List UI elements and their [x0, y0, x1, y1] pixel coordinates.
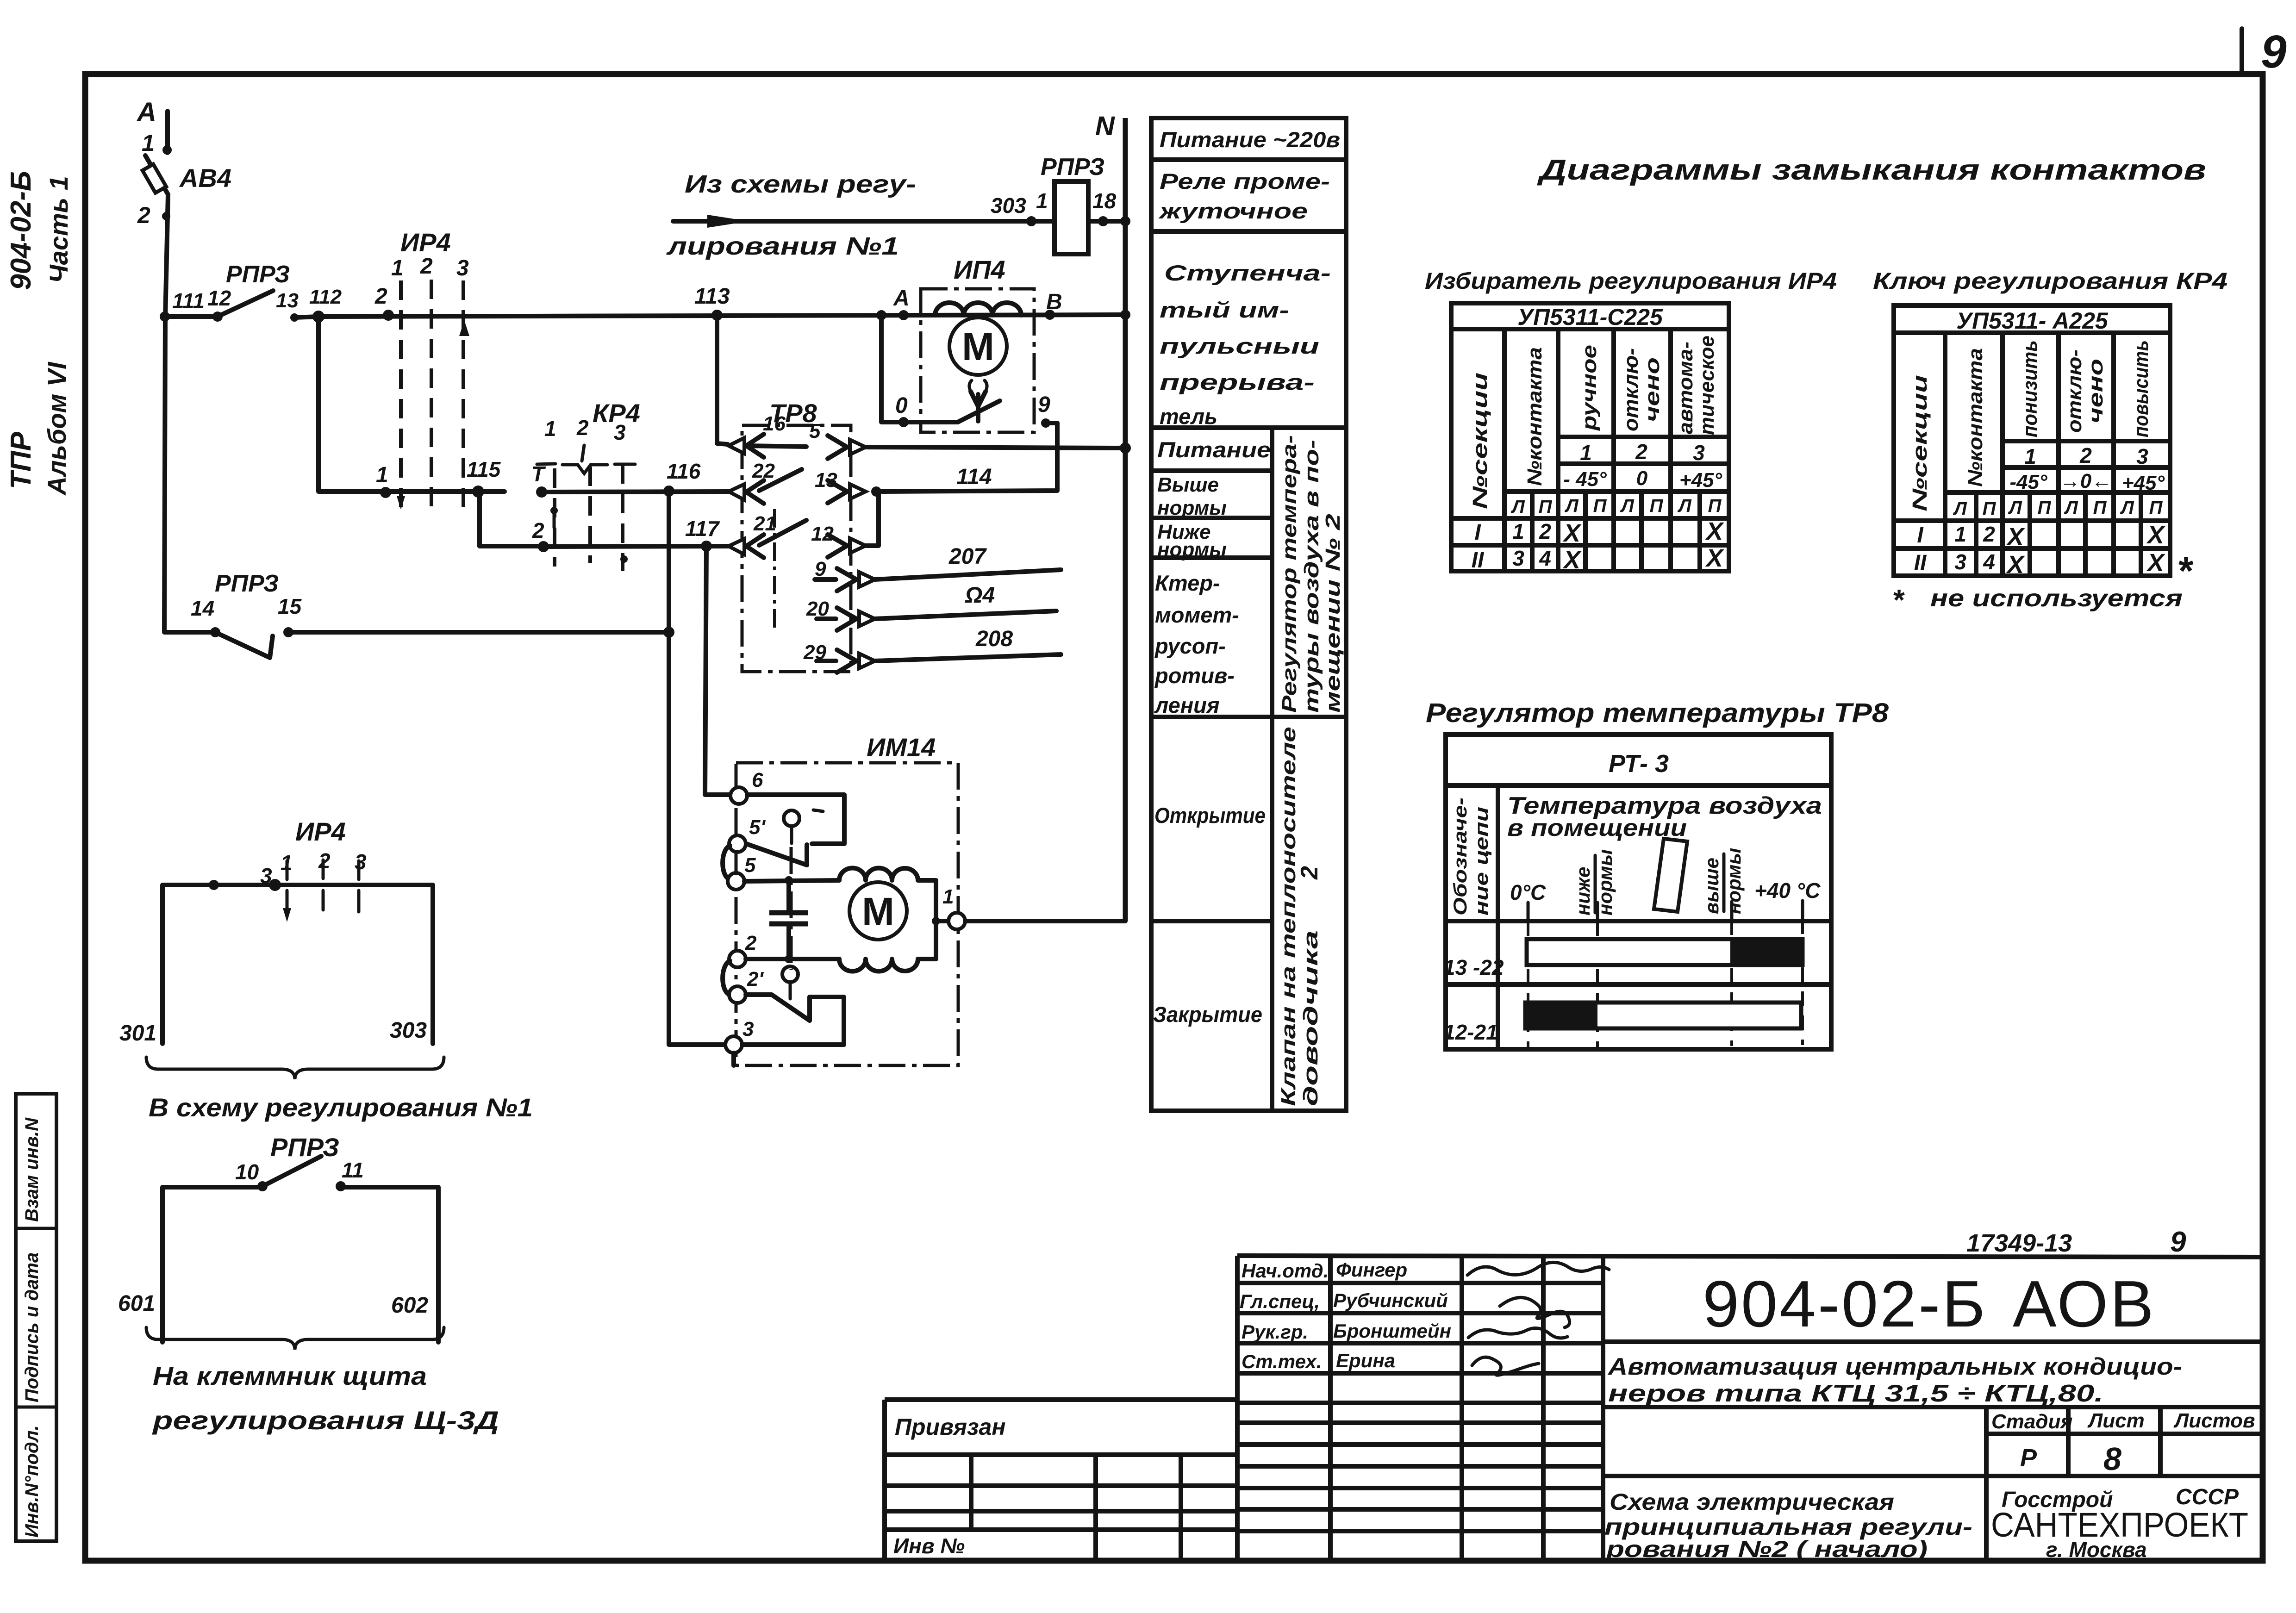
stamp column boxes (left margin): [16, 1094, 56, 1541]
svg-text:На клеммник щита: На клеммник щита: [153, 1361, 427, 1390]
IM14 jumper 5'-5: [723, 846, 730, 879]
svg-text:117: 117: [685, 517, 720, 541]
svg-text:303: 303: [991, 193, 1026, 218]
svg-text:Нач.отд.: Нач.отд.: [1242, 1260, 1329, 1282]
svg-text:Из схемы регу-: Из схемы регу-: [685, 170, 916, 198]
wire 113 down to TP8 contact 16: [717, 315, 728, 444]
svg-text:доводчика: доводчика: [1299, 930, 1322, 1106]
svg-text:не используется: не используется: [1930, 585, 2183, 612]
svg-text:УП5311- А225: УП5311- А225: [1956, 308, 2109, 334]
svg-text:3: 3: [1512, 546, 1524, 570]
svg-text:нормы: нормы: [1723, 848, 1745, 914]
svg-text:нормы: нормы: [1157, 497, 1227, 519]
svg-text:1: 1: [1512, 519, 1524, 543]
svg-text:АОВ: АОВ: [2013, 1267, 2156, 1341]
svg-text:тель: тель: [1160, 404, 1217, 429]
svg-text:303: 303: [390, 1018, 427, 1043]
svg-text:РТ- 3: РТ- 3: [1609, 750, 1669, 778]
svg-text:Рубчинский: Рубчинский: [1333, 1289, 1448, 1311]
svg-text:чено: чено: [2084, 359, 2107, 423]
svg-text:ние цепи: ние цепи: [1472, 807, 1492, 915]
legend rotated Регулятор температуры воздуха в помещении №2: [1278, 435, 1344, 713]
key diagram table UP5311-A225: [1894, 305, 2170, 579]
wire from arrow Iz skhemy regulirovaniya: [666, 170, 1054, 260]
impulse breaker IP4: [893, 255, 1062, 432]
svg-text:Диаграммы замыкания контак: Диаграммы замыкания контактов: [1536, 154, 2206, 186]
legend row Реле промежуточное: [1158, 169, 1330, 223]
subtitle Ключ регулирования КР4: [1873, 268, 2227, 294]
svg-text:115: 115: [467, 457, 501, 481]
relay contact RPR3 10-11: [235, 1133, 364, 1191]
svg-text:М: М: [962, 325, 994, 368]
svg-text:17349-13: 17349-13: [1966, 1229, 2072, 1257]
svg-text:М: М: [862, 890, 894, 933]
subtitle Избиратель регулирования ИР4: [1425, 268, 1837, 294]
wire 15 to 116 riser: [288, 630, 669, 635]
TP8 contact 29 (arrow right): [803, 641, 875, 673]
svg-text:Л: Л: [2008, 498, 2022, 518]
svg-text:3: 3: [355, 850, 367, 874]
svg-text:Л: Л: [1677, 496, 1692, 516]
svg-text:4: 4: [1539, 546, 1551, 570]
svg-text:А: А: [136, 97, 156, 127]
svg-text:207: 207: [948, 544, 987, 569]
svg-text:Обозначе-: Обозначе-: [1450, 797, 1471, 915]
svg-text:ротив-: ротив-: [1154, 663, 1235, 688]
svg-text:2: 2: [1539, 519, 1551, 543]
svg-text:Взам инв.N: Взам инв.N: [22, 1117, 42, 1222]
svg-text:повысить: повысить: [2130, 340, 2152, 437]
svg-text:мещении № 2: мещении № 2: [1322, 513, 1344, 713]
svg-text:16: 16: [763, 412, 786, 435]
wire contact5 to N bus: [866, 447, 1125, 448]
legend row Ниже нормы: [1157, 521, 1227, 561]
svg-text:Л: Л: [1510, 497, 1525, 517]
svg-text:2: 2: [576, 416, 589, 440]
title block outline: [1237, 1256, 2260, 1560]
svg-text:12: 12: [207, 286, 231, 310]
relay contact RPR3 14-15: [164, 318, 302, 658]
wire 115 down to row 2: [480, 492, 543, 546]
svg-text:УП5311-С225: УП5311-С225: [1517, 304, 1663, 330]
svg-text:2: 2: [1296, 866, 1323, 880]
svg-text:№контакта: №контакта: [1523, 347, 1546, 486]
svg-text:0: 0: [895, 393, 908, 418]
svg-text:11: 11: [342, 1158, 364, 1182]
svg-text:112: 112: [309, 286, 342, 308]
svg-text:Выше: Выше: [1157, 473, 1219, 496]
svg-text:2: 2: [745, 932, 757, 954]
svg-text:Питание ~220в: Питание ~220в: [1160, 127, 1340, 152]
TP8 contact 12 (arrow right): [811, 492, 879, 557]
svg-text:X: X: [2006, 551, 2025, 579]
organization name: [1991, 1485, 2248, 1562]
svg-text:10: 10: [235, 1160, 259, 1184]
wire main bus 112 to N: [318, 315, 1125, 317]
svg-text:1: 1: [544, 417, 556, 441]
svg-text:N: N: [1095, 111, 1115, 141]
svg-text:туры воздуха в по-: туры воздуха в по-: [1300, 440, 1323, 713]
actuator IM14: [736, 733, 958, 1065]
svg-text:в помещении: в помещении: [1507, 815, 1687, 841]
svg-text:Лист: Лист: [2087, 1409, 2145, 1432]
stage sheet table: [1603, 1407, 2260, 1560]
svg-text:Ω4: Ω4: [965, 583, 995, 608]
svg-text:1: 1: [2024, 444, 2036, 468]
IM14 upper limit switch: [746, 795, 844, 865]
thermostat table RT-3: [1446, 735, 1831, 1049]
svg-text:X: X: [2146, 549, 2165, 577]
legend row Ступенчатый импульсный прерыватель: [1160, 261, 1331, 429]
border below project title: [1603, 1405, 2260, 1409]
legend row Питание: [1157, 437, 1271, 462]
svg-text:111: 111: [172, 289, 205, 313]
svg-text:1: 1: [1954, 522, 1966, 546]
svg-text:1: 1: [376, 463, 388, 487]
N bus: [1095, 111, 1131, 921]
svg-text:1: 1: [1580, 441, 1592, 465]
svg-text:Л: Л: [1953, 498, 1967, 519]
svg-text:2: 2: [1635, 440, 1647, 464]
TP8 contact 21 (arrow left with blade): [729, 512, 806, 558]
svg-text:А: А: [893, 286, 910, 311]
wire 13-112: [294, 317, 318, 318]
svg-text:№контакта: №контакта: [1964, 348, 1987, 487]
svg-text:904-02-Б: 904-02-Б: [5, 171, 37, 290]
svg-text:3: 3: [742, 1018, 754, 1040]
node 115: [467, 457, 501, 498]
svg-text:21: 21: [753, 512, 776, 535]
breaker AB4: [137, 130, 231, 228]
svg-text:момет-: момет-: [1155, 603, 1239, 627]
legend rotated Клапан на теплоносителе доводчика 2: [1277, 727, 1323, 1106]
svg-text:3: 3: [614, 420, 626, 444]
RT-3 row 13-22 with bar: [1443, 939, 1803, 979]
svg-text:2: 2: [137, 202, 150, 228]
svg-text:2: 2: [2079, 443, 2092, 467]
legend row Закрытие: [1153, 1002, 1262, 1027]
svg-text:ИР4: ИР4: [295, 817, 346, 846]
brace to terminal strip: [146, 1327, 499, 1435]
page number tick: [2240, 29, 2244, 74]
wire T row to TP8 contact 22: [542, 492, 730, 492]
TP8 contact 5 (arrow right): [746, 420, 866, 459]
svg-text:Ерина: Ерина: [1336, 1350, 1395, 1371]
svg-text:Ключ регулирования КР4: Ключ регулирования КР4: [1873, 268, 2227, 294]
wire 112 down to row 1: [318, 317, 386, 492]
wire terminal5 to motor: [744, 876, 839, 884]
svg-text:Привязан: Привязан: [895, 1414, 1006, 1440]
title Диаграммы замыкания контактов: [1536, 154, 2206, 186]
svg-text:2: 2: [420, 254, 433, 279]
svg-text:8: 8: [2103, 1441, 2121, 1477]
margin text ТПР 904-02-6: [5, 171, 37, 489]
IM14 motor M: [839, 868, 940, 972]
svg-text:1: 1: [1036, 189, 1048, 213]
svg-text:+40 °С: +40 °С: [1754, 878, 1821, 903]
svg-text:12-21: 12-21: [1443, 1020, 1498, 1044]
IM14 jumper 2-2': [723, 961, 730, 995]
IM14 terminal 2': [729, 968, 764, 1003]
legend row Выше нормы: [1157, 473, 1227, 519]
svg-text:2: 2: [374, 284, 387, 309]
svg-text:602: 602: [391, 1293, 428, 1318]
IM14 mechanical link: [790, 847, 793, 970]
svg-text:Автоматизация центральных ко: Автоматизация центральных кондицио-: [1607, 1353, 2182, 1380]
svg-text:Р: Р: [2020, 1444, 2037, 1472]
svg-text:116: 116: [667, 459, 701, 483]
svg-text:отклю-: отклю-: [2063, 349, 2086, 433]
IM14 terminal 2: [729, 932, 839, 967]
svg-text:Открытие: Открытие: [1154, 803, 1266, 828]
signature squiggles: [1467, 1262, 1609, 1375]
junction on 116 riser: [663, 627, 674, 638]
wire 601-602 loop: [118, 1187, 438, 1342]
svg-text:П: П: [1593, 496, 1607, 516]
svg-text:Т: Т: [531, 462, 546, 486]
svg-text:5: 5: [809, 420, 821, 442]
svg-text:+45°: +45°: [2122, 472, 2165, 494]
svg-text:неров типа КТЦ 31,5 ÷ КТЦ,80: неров типа КТЦ 31,5 ÷ КТЦ,80.: [1608, 1380, 2103, 1407]
svg-text:5: 5: [744, 854, 756, 877]
node 116: [663, 459, 701, 497]
svg-text:2: 2: [1983, 522, 1995, 546]
svg-text:X: X: [1705, 517, 1724, 545]
relay coil RPR3: [1041, 154, 1104, 254]
wire row 2 to TP8 contact 21: [543, 546, 730, 547]
svg-text:→0←: →0←: [2060, 470, 2112, 492]
wire 116 riser down to IM14 terminal 3: [669, 491, 725, 1045]
wire 301-303 loop: [119, 885, 433, 1046]
key KR4: [531, 399, 640, 571]
svg-text:ИП4: ИП4: [954, 255, 1005, 284]
svg-text:I: I: [1917, 523, 1924, 548]
brace to scheme 1: [146, 1057, 533, 1122]
svg-text:Листов: Листов: [2173, 1409, 2255, 1432]
svg-text:П: П: [2038, 498, 2052, 518]
svg-text:Л: Л: [2064, 498, 2078, 518]
svg-text:X: X: [1705, 544, 1724, 572]
page number 9 (top right): [2261, 26, 2287, 78]
svg-text:ИР4: ИР4: [400, 228, 451, 257]
sheet number 9 (above title block): [2170, 1226, 2186, 1258]
svg-text:отклю-: отклю-: [1620, 348, 1642, 431]
svg-text:Инв.N°подл.: Инв.N°подл.: [22, 1425, 42, 1538]
svg-text:5': 5': [749, 816, 766, 839]
svg-text:Часть 1: Часть 1: [44, 176, 73, 283]
svg-text:1: 1: [391, 256, 404, 280]
svg-text:3: 3: [1954, 550, 1966, 574]
signatures table: [1237, 1256, 1603, 1560]
svg-text:Инв №: Инв №: [893, 1534, 965, 1558]
title Регулятор температуры ТР8: [1426, 698, 1889, 728]
svg-text:регулирования Щ-3Д: регулирования Щ-3Д: [151, 1406, 499, 1435]
svg-text:601: 601: [118, 1291, 155, 1316]
TP8 contact 22 (arrow left with blade): [729, 460, 802, 504]
svg-text:Регулятор температуры ТР8: Регулятор температуры ТР8: [1426, 698, 1889, 728]
wire Omega4: [875, 583, 1056, 619]
TP8 contact 16 (arrow left): [729, 412, 786, 457]
svg-text:г. Москва: г. Москва: [2046, 1538, 2147, 1562]
svg-text:П: П: [1539, 497, 1553, 517]
svg-text:№секции: №секции: [1469, 373, 1491, 509]
svg-text:понизить: понизить: [2019, 340, 2041, 437]
svg-text:нормы: нормы: [1157, 538, 1227, 561]
capacitor: [769, 880, 808, 963]
wire row1 to 115: [386, 489, 505, 494]
node 1 (IR4 lower row): [376, 463, 391, 498]
svg-text:жуточное: жуточное: [1158, 199, 1308, 223]
privyazan box: [885, 1400, 1237, 1560]
svg-text:301: 301: [119, 1021, 156, 1046]
svg-text:- 45°: - 45°: [1563, 468, 1607, 491]
svg-text:3: 3: [1693, 441, 1705, 465]
svg-text:П: П: [2149, 498, 2163, 518]
svg-text:РПРЗ: РПРЗ: [226, 261, 290, 288]
svg-text:Клапан на теплоносителе: Клапан на теплоносителе: [1277, 727, 1300, 1106]
svg-text:Альбом VI: Альбом VI: [42, 361, 71, 496]
asterisk note: [1893, 549, 2194, 617]
wire terminal1 to N bus: [965, 919, 1125, 923]
svg-text:2: 2: [532, 518, 544, 542]
temperature regulator TP8 contact block: [742, 399, 851, 672]
selector IR4 (lower instance): [209, 817, 367, 922]
svg-text:Подпись и дата: Подпись и дата: [22, 1252, 42, 1402]
selector diagram table UP5311-C225: [1451, 303, 1729, 574]
svg-text:22: 22: [752, 460, 775, 482]
svg-text:чено: чено: [1641, 357, 1664, 422]
IM14 lower limit switch: [742, 966, 844, 1045]
svg-text:тическое: тическое: [1696, 336, 1718, 435]
wire 0 feed from bus: [876, 310, 898, 422]
wire 117 riser down to IM14 terminal 6: [705, 546, 730, 795]
svg-text:№секции: №секции: [1909, 375, 1931, 511]
svg-text:ИМ14: ИМ14: [867, 733, 936, 762]
svg-text:X: X: [2146, 521, 2165, 549]
svg-text:208: 208: [975, 627, 1013, 651]
IM14 terminal 6: [730, 769, 763, 804]
svg-text:2': 2': [747, 968, 764, 990]
svg-text:Гл.спец,: Гл.спец,: [1240, 1290, 1320, 1312]
svg-text:15: 15: [278, 594, 302, 618]
svg-text:Схема электрическая: Схема электрическая: [1610, 1489, 1894, 1515]
svg-text:ления: ления: [1154, 693, 1220, 717]
svg-text:Регулятор темпера-: Регулятор темпера-: [1278, 435, 1301, 713]
svg-text:тый им-: тый им-: [1160, 298, 1289, 322]
svg-text:0: 0: [1636, 467, 1648, 490]
IM14 terminal 3: [725, 1018, 754, 1065]
svg-text:Рук.гр.: Рук.гр.: [1242, 1321, 1308, 1343]
svg-text:13: 13: [276, 289, 299, 312]
svg-text:18: 18: [1092, 189, 1117, 213]
document number 17349-13: [1966, 1229, 2072, 1257]
svg-text:1: 1: [142, 130, 155, 156]
svg-text:4: 4: [1983, 550, 1995, 574]
svg-text:3: 3: [456, 256, 469, 280]
svg-text:0°С: 0°С: [1510, 880, 1546, 904]
margin text Часть 1 / Альбом VI: [42, 176, 73, 496]
svg-text:Питание: Питание: [1157, 437, 1271, 462]
svg-text:Закрытие: Закрытие: [1153, 1002, 1262, 1027]
wire 207: [875, 544, 1061, 579]
svg-text:II: II: [1472, 548, 1485, 573]
svg-text:II: II: [1914, 551, 1927, 575]
wire 114 loop from node 9: [876, 423, 1057, 492]
svg-text:РПРЗ: РПРЗ: [215, 570, 279, 597]
selector IR4 (upper): [374, 228, 469, 510]
svg-text:904-02-Б: 904-02-Б: [1703, 1267, 1987, 1341]
project title text: [1607, 1353, 2182, 1407]
svg-text:9: 9: [2170, 1226, 2186, 1258]
legend row Питание ~220в: [1160, 127, 1340, 152]
svg-text:лирования №1: лирования №1: [666, 232, 899, 260]
node 111: [160, 289, 205, 322]
svg-text:9: 9: [815, 558, 826, 580]
TP8 contact 9 (arrow right): [815, 558, 875, 591]
svg-text:I: I: [1474, 520, 1481, 545]
node A phase label: [136, 97, 172, 155]
legend table (middle column): [1151, 118, 1346, 1111]
svg-text:АВ4: АВ4: [179, 163, 231, 193]
svg-text:В схему регулирования №1: В схему регулирования №1: [149, 1093, 533, 1122]
svg-text:X: X: [1562, 546, 1582, 574]
svg-text:Бронштейн: Бронштейн: [1333, 1320, 1451, 1342]
TP8 contact 20 (arrow right): [806, 598, 875, 630]
wire trunk phase A: [165, 194, 168, 318]
sheet title: [1604, 1489, 1972, 1562]
svg-text:П: П: [1983, 498, 1997, 519]
svg-text:Стадия: Стадия: [1991, 1410, 2072, 1433]
legend row К термометру сопротивления: [1154, 571, 1239, 717]
svg-text:пульсныи: пульсныи: [1160, 334, 1319, 358]
svg-text:-45°: -45°: [2009, 471, 2047, 493]
RT-3 row 12-21 with bar: [1443, 1003, 1801, 1044]
svg-text:*: *: [1893, 583, 1905, 617]
svg-text:6: 6: [752, 769, 763, 791]
svg-text:рования №2 ( начало): рования №2 ( начало): [1605, 1536, 1928, 1562]
node 113: [694, 284, 730, 321]
relay contact RPR3 12-13: [207, 261, 299, 322]
IM14 terminal 5: [728, 854, 756, 890]
svg-text:русоп-: русоп-: [1154, 634, 1226, 658]
node 117: [685, 517, 720, 552]
IM14 terminal 1: [936, 885, 965, 929]
svg-text:Ступенча-: Ступенча-: [1164, 261, 1331, 285]
svg-text:X: X: [1562, 519, 1582, 547]
svg-text:Л: Л: [2120, 498, 2134, 518]
svg-text:ниже: ниже: [1572, 867, 1594, 915]
svg-text:Ктер-: Ктер-: [1155, 571, 1220, 595]
border below code: [1603, 1339, 2260, 1344]
svg-text:П: П: [1708, 496, 1722, 516]
svg-text:Реле проме-: Реле проме-: [1160, 169, 1330, 193]
privyazan grid: [885, 1455, 1237, 1560]
svg-text:1: 1: [942, 885, 954, 908]
wire 18 to N bus: [1088, 219, 1125, 224]
node 112: [309, 286, 342, 323]
legend row Открытие: [1154, 803, 1266, 828]
TP8 contact 13 (arrow right): [815, 469, 881, 503]
svg-text:выше: выше: [1701, 858, 1722, 914]
svg-text:П: П: [2093, 498, 2107, 518]
svg-text:РПРЗ: РПРЗ: [270, 1133, 339, 1162]
svg-text:113: 113: [694, 284, 730, 309]
svg-text:+45°: +45°: [1679, 469, 1722, 492]
svg-text:Ст.тех.: Ст.тех.: [1242, 1351, 1322, 1372]
svg-text:автома-: автома-: [1674, 342, 1697, 434]
svg-text:3: 3: [2136, 444, 2148, 468]
wire 111-12: [165, 314, 218, 319]
